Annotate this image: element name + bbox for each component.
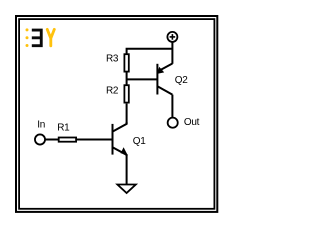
svg-text:In: In: [37, 120, 45, 131]
svg-text:R1: R1: [57, 123, 70, 134]
wire R2 to R3: [126, 73, 128, 85]
wire R3 to supply: [127, 49, 173, 54]
transistor Q1: [113, 122, 128, 156]
resistor R2: [124, 85, 128, 102]
wire Q2 collector to Out: [171, 95, 173, 118]
transistor Q2: [157, 64, 172, 95]
ground: [117, 185, 135, 194]
resistor R1: [59, 138, 76, 142]
svg-text:Out: Out: [184, 117, 200, 128]
svg-text:R3: R3: [106, 54, 119, 65]
port Out: [168, 118, 178, 128]
wire node to Q2 base: [127, 78, 157, 80]
resistor R3: [124, 54, 128, 71]
logo: [26, 28, 55, 47]
supply wire: [171, 42, 173, 64]
wire In to R1: [45, 139, 58, 141]
wire R1 to Q1 base: [77, 139, 112, 141]
wire Q1 collector to R2: [126, 104, 128, 124]
port In: [35, 134, 45, 144]
svg-text:R2: R2: [106, 86, 119, 97]
power supply +: [167, 32, 177, 42]
svg-text:Q1: Q1: [133, 136, 146, 147]
svg-text:Q2: Q2: [175, 75, 188, 86]
wire Q1 emitter to ground: [126, 155, 128, 185]
